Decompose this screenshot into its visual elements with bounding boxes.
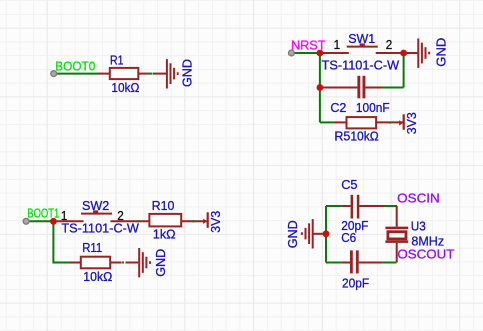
svg-text:R1: R1 xyxy=(110,52,124,67)
power flag 3V3 xyxy=(399,120,403,125)
wire xyxy=(403,53,405,88)
svg-text:3V3: 3V3 xyxy=(208,211,223,233)
resistor R1 xyxy=(97,73,110,75)
node BOOT1 (unconnected stub dot) xyxy=(23,218,29,224)
switch SW1 xyxy=(320,47,404,53)
svg-text:GND: GND xyxy=(179,59,194,87)
capacitor C2 xyxy=(322,76,382,99)
svg-text:TS-1101-C-W: TS-1101-C-W xyxy=(61,221,139,236)
wire xyxy=(137,220,140,222)
svg-text:C5: C5 xyxy=(341,177,357,192)
wire xyxy=(326,262,342,264)
wire xyxy=(291,52,320,54)
wire xyxy=(53,221,70,262)
ground xyxy=(302,219,326,248)
wire xyxy=(54,73,97,75)
capacitor C6 xyxy=(342,250,383,273)
wire xyxy=(382,262,396,264)
junction E xyxy=(323,230,330,237)
svg-text:10kΩ: 10kΩ xyxy=(350,128,379,143)
junction B xyxy=(400,50,407,57)
wire xyxy=(148,73,153,75)
svg-text:R11: R11 xyxy=(82,240,102,255)
svg-text:1kΩ: 1kΩ xyxy=(153,227,176,242)
capacitor C5 xyxy=(341,195,384,219)
wire xyxy=(389,122,391,124)
ground xyxy=(404,39,430,68)
svg-text:R5: R5 xyxy=(334,128,350,143)
resistor R11 xyxy=(70,262,81,264)
svg-text:R10: R10 xyxy=(152,198,175,213)
svg-text:OSCOUT: OSCOUT xyxy=(397,247,454,262)
svg-text:100nF: 100nF xyxy=(356,100,390,115)
resistor R5 xyxy=(333,121,346,123)
svg-text:BOOT0: BOOT0 xyxy=(55,58,95,73)
svg-text:2: 2 xyxy=(386,37,393,52)
wire xyxy=(121,262,124,264)
svg-text:GND: GND xyxy=(433,38,448,67)
junction D xyxy=(50,218,57,225)
junction C xyxy=(317,84,324,91)
wire xyxy=(325,206,327,263)
svg-text:SW1: SW1 xyxy=(348,31,375,46)
svg-text:10kΩ: 10kΩ xyxy=(83,269,112,284)
svg-text:10kΩ: 10kΩ xyxy=(111,80,139,95)
resistor R10 xyxy=(149,214,181,227)
wire xyxy=(192,220,195,222)
ground xyxy=(153,59,178,88)
power flag 3V3 xyxy=(203,219,207,224)
switch SW2 xyxy=(53,214,149,222)
svg-text:SW2: SW2 xyxy=(82,198,109,213)
ground xyxy=(126,248,151,277)
svg-text:TS-1101-C-W: TS-1101-C-W xyxy=(322,57,400,72)
svg-text:U3: U3 xyxy=(411,218,426,233)
wire xyxy=(384,205,397,207)
svg-text:3V3: 3V3 xyxy=(404,112,419,134)
svg-text:OSCIN: OSCIN xyxy=(397,190,440,205)
svg-text:20pF: 20pF xyxy=(342,275,369,290)
wire xyxy=(382,87,404,89)
wire xyxy=(326,205,341,207)
svg-text:GND: GND xyxy=(285,220,300,248)
node NRST (unconnected stub dot) xyxy=(289,50,295,56)
wire xyxy=(26,220,53,222)
junction A xyxy=(317,50,324,57)
svg-text:GND: GND xyxy=(153,249,168,277)
svg-text:C6: C6 xyxy=(341,230,356,245)
wire xyxy=(320,121,333,123)
svg-text:C2: C2 xyxy=(330,100,346,115)
wire xyxy=(319,53,321,122)
svg-text:1: 1 xyxy=(334,37,341,52)
node BOOT0 (unconnected stub dot) xyxy=(51,71,57,77)
crystal U3 xyxy=(385,206,408,263)
